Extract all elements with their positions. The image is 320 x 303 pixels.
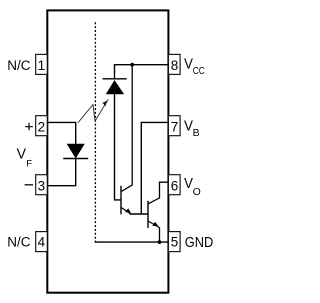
optical isolation boundary (dashed line)	[94, 22, 96, 242]
pin 2 box	[36, 116, 48, 136]
svg-text:1: 1	[38, 58, 46, 73]
anode polarity label +	[25, 123, 33, 130]
wire Q2 emitter to GND	[159, 227, 161, 242]
svg-text:4: 4	[38, 235, 46, 250]
cathode polarity label -	[25, 184, 33, 186]
GND wire pin 5	[95, 241, 169, 243]
transistor Q1 base bar	[120, 186, 122, 215]
pin 3 box	[36, 175, 48, 195]
VCC wire pin 8 to photodiode	[115, 65, 169, 79]
svg-text:2: 2	[38, 120, 46, 135]
photodiode D2 triangle	[106, 81, 123, 94]
pin 5 box	[168, 232, 180, 252]
svg-text:V: V	[17, 146, 26, 163]
transistor Q2 base bar	[147, 201, 149, 228]
svg-text:N/C: N/C	[7, 235, 31, 250]
pin 6 box	[168, 175, 180, 195]
svg-text:5: 5	[171, 235, 179, 250]
junction dot at GND node	[158, 240, 162, 244]
svg-text:3: 3	[38, 179, 46, 194]
IC package outline U1	[47, 10, 168, 292]
transistor Q2 collector (diagonal + wire to pin 6)	[148, 182, 168, 204]
LED D1 anode triangle	[67, 144, 84, 158]
svg-text:V: V	[184, 55, 193, 72]
wire pin 7 to Q2 base (VB)	[141, 122, 168, 214]
wire LED cathode to pin 3	[47, 159, 75, 186]
LED D1 cathode bar	[63, 158, 88, 160]
transistor Q1 collector (diagonal + wire to VCC node)	[121, 65, 132, 192]
transistor Q2 emitter diagonal	[148, 221, 159, 228]
pin 1 box	[36, 54, 48, 74]
wire pin2 to LED anode	[47, 122, 75, 144]
pin 7 box	[168, 116, 180, 136]
svg-text:7: 7	[171, 120, 179, 135]
wire photodiode anode to Q1 base	[115, 94, 122, 200]
light arrow head	[103, 101, 108, 107]
photodiode D2 cathode bar	[103, 78, 127, 80]
svg-text:8: 8	[171, 58, 179, 73]
wire Q1 emitter to Q2 base	[130, 213, 149, 215]
svg-text:F: F	[26, 158, 32, 169]
transistor Q2 emitter arrowhead	[152, 222, 158, 227]
junction dot at VCC node	[130, 63, 134, 67]
transistor Q1 emitter arrowhead	[125, 208, 131, 212]
svg-text:CC: CC	[193, 66, 205, 77]
transistor Q1 emitter diagonal	[121, 207, 131, 214]
svg-text:N/C: N/C	[7, 58, 31, 73]
svg-text:O: O	[193, 186, 201, 198]
pin 4 box	[36, 232, 48, 252]
svg-text:GND: GND	[185, 235, 214, 251]
light emission arrow (zigzag)	[78, 99, 108, 123]
svg-text:6: 6	[171, 179, 179, 194]
pin 8 box	[168, 54, 180, 74]
svg-text:B: B	[193, 127, 200, 139]
